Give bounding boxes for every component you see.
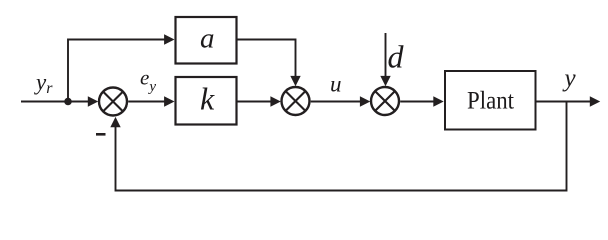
svg-text:k: k (200, 81, 215, 117)
svg-text:a: a (200, 23, 215, 55)
svg-text:u: u (330, 72, 342, 97)
svg-text:y: y (562, 65, 577, 92)
svg-text:d: d (388, 39, 405, 75)
svg-text:Plant: Plant (467, 86, 514, 115)
